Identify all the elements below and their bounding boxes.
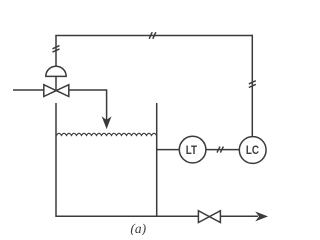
arrowhead outlet (257, 213, 266, 220)
signal line top horizontal (55, 35, 253, 37)
pneumatic signal slashes on right vertical (249, 81, 256, 84)
valve stem (55, 76, 57, 90)
wire: inlet pipe left segment (13, 89, 44, 91)
arrowhead into tank (103, 118, 110, 127)
svg-text:LC: LC (246, 144, 259, 157)
wire: outlet pipe right segment (220, 215, 258, 217)
pneumatic signal slashes LT-LC (217, 147, 220, 153)
wire: tank tap to LT (157, 149, 180, 151)
instrument LC level controller (239, 137, 266, 164)
wire: inlet pipe right segment (69, 90, 107, 121)
liquid surface wavy line (57, 133, 157, 135)
signal line LT to LC (206, 149, 239, 151)
signal line right vertical (251, 35, 253, 137)
svg-text:(a): (a) (130, 221, 146, 235)
actuator diaphragm dome (46, 66, 66, 76)
tank (56, 103, 157, 216)
pneumatic signal slashes on valve signal (53, 46, 60, 49)
signal line to valve (vertical above dome) (55, 36, 57, 67)
svg-text:LT: LT (186, 144, 198, 157)
pneumatic signal slashes on top line (149, 32, 152, 39)
valve V2 outlet hand valve (198, 211, 220, 223)
wire: outlet pipe left segment (157, 215, 199, 217)
instrument LT level transmitter (179, 136, 206, 163)
valve V1 control valve body (44, 85, 69, 97)
